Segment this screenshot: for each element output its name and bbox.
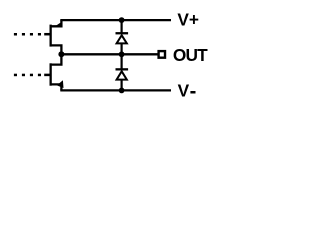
wire: top base dotted lead — [14, 33, 51, 36]
transistor Q1 emitter lead — [51, 20, 62, 26]
diode D1 (clamp, OUT to V+) — [116, 33, 129, 43]
node: junction dot on V- rail — [119, 88, 125, 94]
wire: clamp rail segment from V+ to D1 — [120, 20, 122, 33]
terminal: OUT pad — [159, 51, 165, 58]
wire: clamp rail segment from D2 to V- — [120, 80, 122, 91]
wire: OUT line — [61, 53, 157, 55]
transistor Q2 collector lead — [51, 54, 62, 64]
node: junction dot on OUT line — [119, 51, 125, 57]
transistor Q1 emitter arrow (PNP, points toward base) — [53, 22, 61, 28]
wire: V- rail — [60, 89, 171, 91]
transistor Q1 collector lead — [51, 45, 62, 54]
diode D2 (clamp, V- to OUT) — [116, 69, 129, 79]
wire: clamp rail segment from D1 to D2 — [120, 43, 122, 69]
wire: V+ rail — [60, 19, 171, 21]
transistor Q2 emitter lead — [51, 84, 62, 90]
wire: bottom base dotted lead — [14, 74, 51, 77]
transistor Q1 base bar — [50, 25, 52, 47]
svg-text:OUT: OUT — [173, 45, 208, 65]
svg-text:V: V — [178, 81, 190, 101]
svg-text:V+: V+ — [177, 10, 199, 30]
transistor Q2 emitter arrow (NPN, points away from base) — [57, 80, 64, 88]
node: output junction dot — [58, 51, 64, 57]
node: junction dot on V+ rail — [119, 17, 125, 23]
transistor Q2 base bar — [50, 63, 52, 85]
